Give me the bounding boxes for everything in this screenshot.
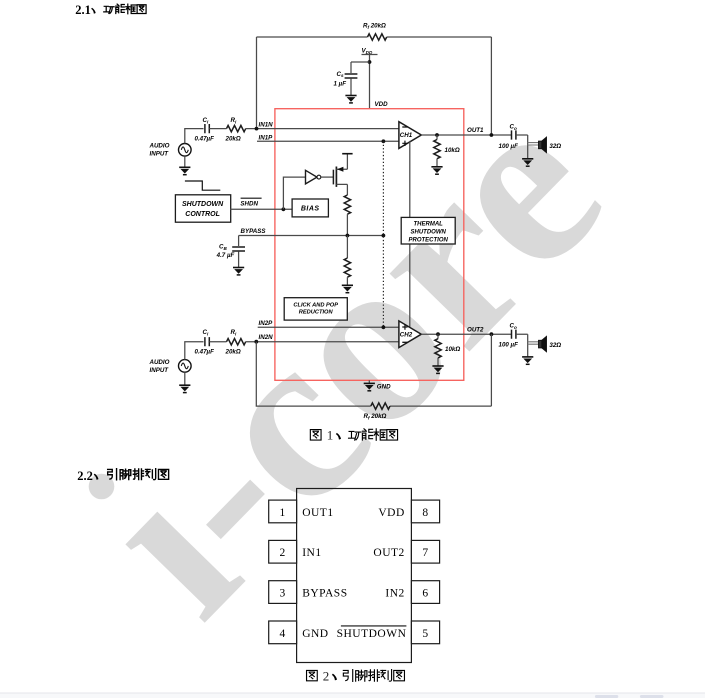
svg-text:20kΩ: 20kΩ	[225, 136, 241, 143]
svg-text:IN1P: IN1P	[259, 134, 274, 141]
wire: Ci to Ri	[209, 128, 226, 130]
wire: input 2 to Ci	[185, 342, 204, 360]
ground (CB)	[233, 268, 244, 275]
capacitor Co 100uF (ch1)	[512, 130, 516, 139]
svg-text:Rf 20kΩ: Rf 20kΩ	[363, 23, 386, 30]
svg-text:Cs: Cs	[336, 71, 343, 78]
svg-text:4: 4	[279, 628, 285, 640]
block: CLICK AND POP REDUCTION	[284, 298, 347, 320]
node: OUT2/10k	[436, 332, 440, 336]
svg-text:AUDIO: AUDIO	[149, 143, 170, 150]
capacitor Ci 0.47uF (ch2)	[205, 337, 209, 346]
svg-text:AUDIO: AUDIO	[149, 359, 170, 366]
power rail bar (Q1 source)	[342, 153, 352, 155]
svg-text:20kΩ: 20kΩ	[225, 349, 241, 356]
svg-text:10kΩ: 10kΩ	[445, 147, 460, 154]
svg-text:1: 1	[279, 507, 285, 519]
resistor Ri 20k (ch2)	[227, 339, 246, 345]
ground (input source 2)	[184, 372, 186, 385]
node: IN1N junction with feedback	[255, 127, 259, 131]
svg-text:VDD: VDD	[375, 101, 389, 108]
resistor (bias divider upper)	[344, 195, 350, 214]
caption figure 2	[307, 668, 405, 683]
svg-text:0.47µF: 0.47µF	[195, 349, 215, 356]
capacitor Ci 0.47uF (ch1)	[205, 124, 209, 133]
block: SHUTDOWN CONTROL	[175, 195, 230, 222]
svg-text:GND: GND	[377, 383, 391, 390]
resistor (bias divider lower)	[346, 236, 348, 259]
resistor 10k (ch1 load)	[436, 135, 438, 140]
op-amp CH2	[399, 321, 421, 348]
wire: Co to speaker 2	[516, 334, 528, 357]
wire: Co to speaker 1	[516, 135, 528, 159]
svg-text:SHDN: SHDN	[240, 201, 258, 208]
svg-text:SHUTDOWN: SHUTDOWN	[337, 628, 407, 640]
wire: IN2P net	[258, 326, 399, 328]
svg-text:OUT1: OUT1	[302, 507, 333, 519]
svg-text:8: 8	[422, 507, 428, 519]
svg-text:CH1: CH1	[400, 132, 413, 139]
wire: SHDN net	[230, 208, 292, 210]
svg-text:10kΩ: 10kΩ	[445, 346, 460, 353]
pin 4 box	[269, 621, 297, 644]
svg-text:4.7 µF: 4.7 µF	[216, 252, 235, 259]
svg-text:2.1: 2.1	[75, 3, 91, 17]
svg-text:IN1: IN1	[302, 547, 321, 559]
wire: IN2N net	[246, 341, 399, 343]
wire: OUT2 net	[421, 333, 511, 335]
svg-text:CONTROL: CONTROL	[185, 211, 220, 218]
capacitor Cs 1uF	[345, 74, 358, 78]
svg-text:GND: GND	[302, 628, 328, 640]
resistor 10k (ch2 load)	[437, 334, 439, 339]
node: OUT1 feedback junction	[490, 133, 494, 137]
pin 8 box	[411, 500, 439, 523]
speaker 1 (32 ohm)	[528, 137, 547, 152]
svg-text:REDUCTION: REDUCTION	[299, 310, 334, 316]
inverter U1	[306, 170, 318, 184]
wire: input 1 to Ci	[185, 129, 204, 144]
dotted bypass reference line	[382, 141, 384, 327]
svg-text:BYPASS: BYPASS	[241, 228, 267, 235]
wire: Ci to Ri (ch2)	[209, 341, 226, 343]
node: IN1P / bypass tie	[382, 139, 386, 143]
ground (bias divider)	[342, 285, 353, 292]
bottom toolbar strip	[0, 693, 705, 698]
op-amp CH1	[399, 122, 421, 149]
svg-text:INPUT: INPUT	[150, 151, 170, 158]
node: IN2P / dotted tie	[382, 325, 386, 329]
power VDD supply symbol	[362, 55, 378, 110]
wire: inverter to gate	[321, 176, 334, 178]
svg-text:OUT2: OUT2	[373, 547, 404, 559]
svg-text:VDD: VDD	[378, 507, 404, 519]
svg-text:INPUT: INPUT	[150, 367, 170, 374]
svg-text:Ci: Ci	[203, 117, 209, 124]
svg-text:IN2P: IN2P	[259, 320, 274, 327]
svg-text:2: 2	[279, 547, 285, 559]
svg-text:2.2: 2.2	[77, 469, 93, 483]
pin 2 box	[269, 540, 297, 563]
svg-text:7: 7	[422, 547, 428, 559]
svg-text:CLICK AND POP: CLICK AND POP	[293, 303, 338, 309]
svg-text:6: 6	[422, 588, 428, 600]
caption figure 1	[310, 428, 397, 443]
svg-text:1 µF: 1 µF	[333, 80, 346, 87]
resistor Rf 20k (bottom feedback)	[371, 403, 390, 409]
pin 6 box	[411, 581, 439, 604]
svg-text:3: 3	[279, 588, 285, 600]
shutdown step waveform	[185, 181, 220, 190]
pin 5 box	[411, 621, 439, 644]
ground (input source 1)	[184, 156, 186, 167]
node: bypass/divider junction	[346, 234, 350, 238]
node: bypass/dotted tie	[382, 234, 386, 238]
resistor Ri 20k (ch1)	[227, 125, 246, 131]
svg-text:0.47µF: 0.47µF	[195, 136, 215, 143]
wire: bottom feedback rail OUT2 loop	[256, 334, 491, 406]
speaker 2 (32 ohm)	[528, 337, 547, 352]
svg-text:CB: CB	[219, 244, 227, 251]
svg-text:OUT2: OUT2	[467, 326, 484, 333]
ground GND pin of IC	[368, 380, 370, 383]
svg-text:100 µF: 100 µF	[499, 342, 519, 349]
svg-text:100 µF: 100 µF	[499, 143, 519, 150]
wire: IN1N net	[246, 128, 399, 130]
svg-text:IN2: IN2	[385, 588, 404, 600]
svg-text:2: 2	[323, 668, 330, 683]
resistor Rf (top feedback)	[368, 34, 387, 40]
IC package body	[297, 489, 412, 663]
svg-text:SHUTDOWN: SHUTDOWN	[182, 201, 224, 208]
svg-text:32Ω: 32Ω	[549, 342, 561, 349]
node: VDD / Cs junction	[368, 60, 372, 64]
svg-text:IN1N: IN1N	[259, 122, 274, 129]
svg-text:IN2N: IN2N	[259, 334, 274, 341]
wire: top feedback rail OUT1 loop	[257, 37, 492, 135]
transistor Q1 (PMOS)	[332, 170, 334, 185]
wire: OUT1 net	[421, 134, 511, 136]
node: OUT2 feedback junction	[490, 332, 494, 336]
svg-text:VDD: VDD	[362, 48, 373, 55]
heading 2.2 pin arrangement	[77, 469, 168, 484]
svg-text:32Ω: 32Ω	[549, 143, 561, 150]
wire: BYPASS net	[239, 235, 384, 237]
svg-text:PROTECTION: PROTECTION	[409, 237, 449, 243]
svg-text:BIAS: BIAS	[301, 206, 320, 213]
ground (speaker 1)	[522, 159, 533, 166]
capacitor Co 100uF (ch2)	[512, 330, 516, 339]
wire: IN1P net	[257, 140, 399, 142]
wire: Cs branch	[351, 62, 370, 73]
svg-text:Ri: Ri	[231, 117, 237, 124]
node: SHDN junction	[282, 207, 286, 211]
ground (speaker 2)	[522, 357, 533, 364]
svg-text:THERMAL: THERMAL	[414, 221, 444, 227]
pin 1 box	[269, 500, 297, 523]
IC boundary red box	[275, 109, 464, 381]
svg-text:Rf 20kΩ: Rf 20kΩ	[364, 413, 387, 420]
pin 3 box	[269, 581, 297, 604]
capacitor CB 4.7uF	[238, 236, 240, 247]
ground (10k ch2)	[432, 366, 443, 373]
ground (10k ch1)	[431, 167, 442, 174]
block: BIAS	[292, 199, 328, 217]
ground (Cs)	[345, 96, 356, 103]
pin 7 box	[411, 540, 439, 563]
svg-text:OUT1: OUT1	[467, 127, 484, 134]
wire: CH1 internal tie to CH2	[409, 141, 411, 329]
node: IN2N junction with feedback	[254, 340, 258, 344]
svg-text:5: 5	[422, 628, 428, 640]
svg-text:BYPASS: BYPASS	[302, 588, 347, 600]
svg-text:CH2: CH2	[400, 332, 413, 339]
node: OUT1/10k	[435, 133, 439, 137]
svg-text:1: 1	[327, 428, 334, 443]
svg-text:SHUTDOWN: SHUTDOWN	[411, 229, 447, 235]
block: THERMAL SHUTDOWN PROTECTION	[401, 217, 455, 244]
watermark i-core	[46, 53, 651, 663]
heading 2.1 functional block diagram	[75, 3, 146, 17]
wire: SHDN to inverter	[283, 177, 305, 209]
